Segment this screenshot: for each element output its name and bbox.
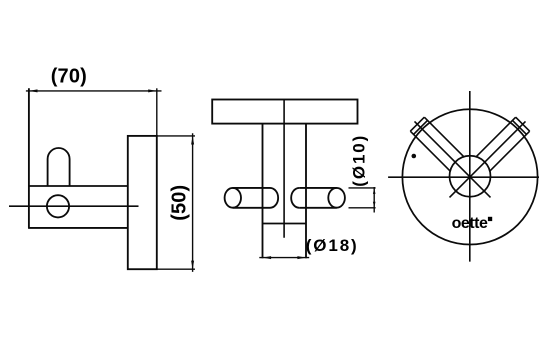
- svg-text:(70): (70): [51, 66, 87, 88]
- svg-text:(Ø10): (Ø10): [350, 136, 369, 187]
- svg-text:oette: oette: [452, 215, 488, 232]
- svg-text:(50): (50): [169, 185, 191, 221]
- svg-text:(Ø18): (Ø18): [306, 236, 357, 255]
